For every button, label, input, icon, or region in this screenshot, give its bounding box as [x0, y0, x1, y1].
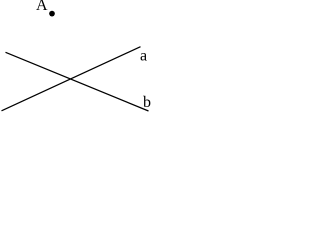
geometry figure: point A above two crossing lines a and b — [0, 0, 152, 114]
point A dot — [49, 11, 55, 17]
line b — [6, 52, 149, 111]
svg-text:A: A — [36, 0, 48, 14]
svg-text:a: a — [140, 48, 147, 65]
svg-text:b: b — [143, 94, 151, 111]
line a — [2, 47, 141, 111]
